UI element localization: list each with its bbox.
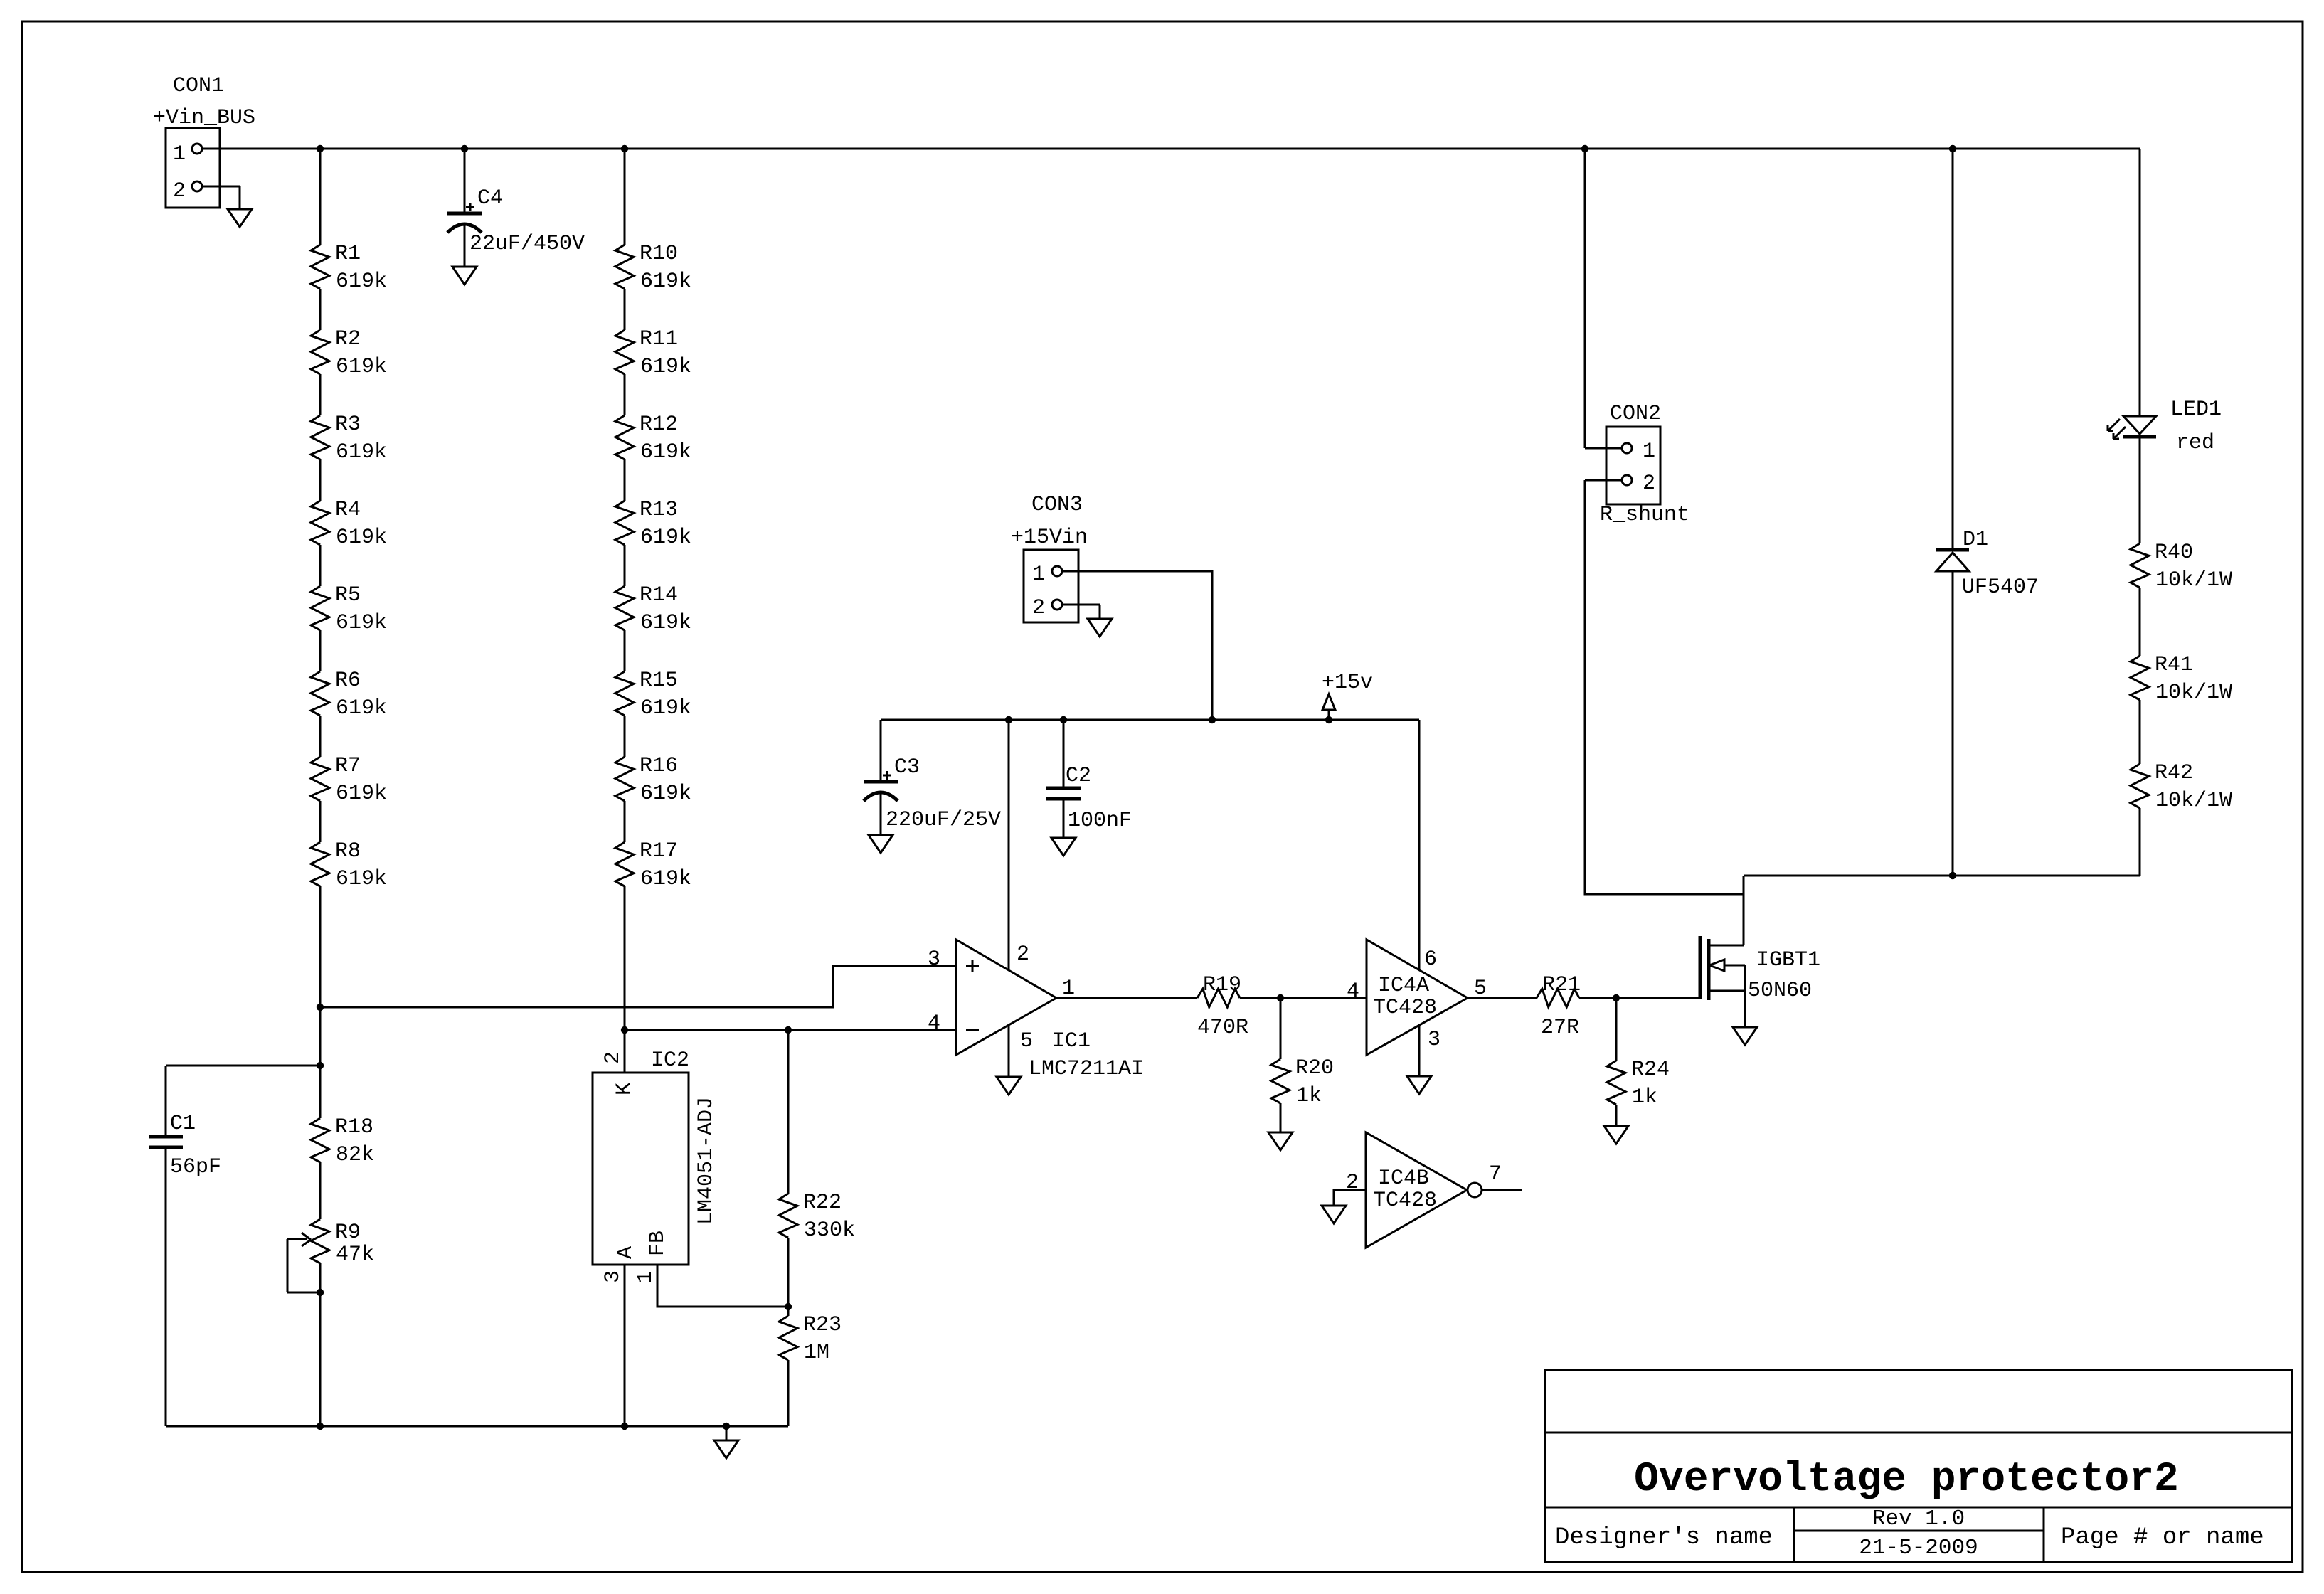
- svg-text:R7: R7: [335, 754, 361, 778]
- ground (R24): [1604, 1126, 1628, 1144]
- svg-text:IC1: IC1: [1052, 1029, 1091, 1053]
- svg-text:R15: R15: [640, 669, 678, 693]
- svg-text:2: 2: [1017, 942, 1029, 967]
- ground (bottom bus): [714, 1426, 738, 1458]
- resistor R5: [311, 545, 387, 635]
- wire CON2 pin2 down: [1585, 480, 1744, 894]
- svg-text:R19: R19: [1203, 973, 1241, 997]
- junction bus/R10: [621, 145, 628, 152]
- junction rail/CON3: [1209, 716, 1216, 723]
- resistor R20: [1271, 998, 1334, 1132]
- svg-text:2: 2: [173, 179, 186, 203]
- svg-text:R_shunt: R_shunt: [1600, 503, 1689, 527]
- resistor R11: [615, 289, 691, 379]
- svg-text:R4: R4: [335, 498, 361, 522]
- junction R19/R20: [1277, 994, 1284, 1001]
- capacitor C3: [864, 720, 1001, 835]
- wire +15v rail: [881, 719, 1419, 721]
- resistor R13: [615, 459, 691, 550]
- svg-text:21-5-2009: 21-5-2009: [1859, 1536, 1978, 1561]
- svg-text:4: 4: [1347, 979, 1359, 1004]
- junction C1/chain: [317, 1062, 324, 1069]
- svg-text:27R: 27R: [1541, 1016, 1579, 1040]
- resistor R15: [615, 630, 691, 721]
- CON2 pin 1: [1622, 443, 1632, 453]
- svg-text:619k: 619k: [336, 270, 387, 294]
- svg-text:R11: R11: [640, 327, 678, 351]
- ground (IC4A pin3): [1407, 1076, 1431, 1094]
- svg-text:330k: 330k: [804, 1218, 855, 1243]
- svg-text:619k: 619k: [640, 611, 691, 635]
- svg-text:619k: 619k: [640, 355, 691, 379]
- ground (C2): [1051, 838, 1076, 856]
- svg-text:D1: D1: [1963, 528, 1988, 552]
- svg-text:R8: R8: [335, 839, 361, 864]
- connector CON3: [1011, 493, 1100, 622]
- svg-text:UF5407: UF5407: [1962, 575, 2039, 600]
- svg-text:CON3: CON3: [1031, 493, 1083, 517]
- wire R8 to node A: [319, 886, 322, 1007]
- wire IC1 pin5: [1008, 1024, 1010, 1077]
- svg-text:R6: R6: [335, 669, 361, 693]
- junction R22 top: [785, 1026, 792, 1034]
- resistor R22: [779, 1030, 855, 1307]
- junction K node: [621, 1026, 628, 1034]
- shunt regulator IC2: [593, 1048, 718, 1265]
- svg-text:3: 3: [1428, 1028, 1440, 1052]
- wire IC1 pin2 to +15v rail: [1008, 720, 1010, 969]
- svg-text:FB: FB: [646, 1231, 670, 1256]
- ground (IGBT source): [1733, 1027, 1757, 1045]
- resistor R12: [615, 374, 691, 464]
- capacitor C2: [1046, 720, 1132, 838]
- junction node A: [317, 1004, 324, 1011]
- driver IC4B: [1366, 1132, 1522, 1248]
- svg-text:470R: 470R: [1197, 1016, 1248, 1040]
- svg-text:6: 6: [1424, 947, 1437, 972]
- resistor R6: [311, 630, 387, 721]
- resistor R1: [311, 149, 387, 294]
- potentiometer R9: [287, 1162, 374, 1426]
- supply +15v: [1322, 671, 1373, 720]
- junction bus/D1: [1949, 145, 1956, 152]
- svg-text:5: 5: [1020, 1029, 1033, 1053]
- svg-text:C2: C2: [1066, 764, 1091, 788]
- CON2 pin 2: [1622, 475, 1632, 485]
- junction FB/R22/R23: [785, 1303, 792, 1310]
- CON1 pin 2: [192, 181, 202, 191]
- svg-text:R41: R41: [2155, 653, 2193, 677]
- svg-text:TC428: TC428: [1373, 1189, 1437, 1213]
- resistor R14: [615, 545, 691, 635]
- wire IC1 out to R19: [1056, 997, 1197, 999]
- svg-text:4: 4: [928, 1011, 940, 1036]
- resistor R8: [311, 801, 387, 891]
- svg-text:R3: R3: [335, 413, 361, 437]
- resistor R17: [615, 801, 691, 891]
- svg-text:R17: R17: [640, 839, 678, 864]
- svg-text:K: K: [612, 1083, 637, 1095]
- svg-text:2: 2: [1346, 1171, 1359, 1195]
- title block: [1545, 1370, 2292, 1562]
- svg-text:R5: R5: [335, 583, 361, 607]
- connector CON1: [153, 74, 255, 208]
- svg-text:LED1: LED1: [2170, 398, 2222, 422]
- junction R9 wiper: [317, 1289, 324, 1296]
- svg-text:619k: 619k: [336, 440, 387, 464]
- junction rail/+15v: [1325, 716, 1332, 723]
- svg-text:3: 3: [601, 1270, 625, 1283]
- resistor R21: [1537, 973, 1581, 1040]
- junction bus/R1: [317, 145, 324, 152]
- svg-text:619k: 619k: [336, 526, 387, 550]
- diode D1: [1936, 149, 2039, 876]
- svg-text:red: red: [2176, 431, 2214, 455]
- resistor R3: [311, 374, 387, 464]
- resistor R10: [615, 149, 691, 294]
- junction bus/CON2: [1581, 145, 1588, 152]
- resistor R40: [2131, 541, 2232, 656]
- svg-text:R24: R24: [1631, 1058, 1670, 1082]
- junction gndbus/chain: [317, 1423, 324, 1430]
- svg-text:R10: R10: [640, 242, 678, 266]
- wire R21 to IGBT gate: [1579, 997, 1700, 999]
- wire IC4A out to R21: [1468, 997, 1537, 999]
- svg-text:10k/1W: 10k/1W: [2155, 789, 2232, 813]
- svg-text:Designer's name: Designer's name: [1555, 1524, 1773, 1551]
- svg-text:82k: 82k: [336, 1143, 374, 1167]
- svg-text:50N60: 50N60: [1748, 979, 1812, 1003]
- svg-text:R20: R20: [1295, 1056, 1334, 1080]
- wire bus to CON2 pin1: [1584, 149, 1586, 448]
- svg-text:619k: 619k: [640, 270, 691, 294]
- CON1 pin 1: [192, 144, 202, 154]
- wire IC4B pin2: [1334, 1190, 1366, 1206]
- svg-text:3: 3: [928, 947, 940, 972]
- resistor R2: [311, 289, 387, 379]
- op-amp IC1: [956, 940, 1144, 1081]
- resistor R42: [2131, 761, 2232, 876]
- svg-text:619k: 619k: [640, 782, 691, 806]
- wire rail to IC4A pin6: [1418, 720, 1421, 969]
- ground (IC4B pin2): [1322, 1206, 1346, 1223]
- svg-text:1k: 1k: [1632, 1085, 1657, 1110]
- junction rail/C2: [1060, 716, 1067, 723]
- junction rail/IC1pin2: [1005, 716, 1012, 723]
- svg-text:Rev 1.0: Rev 1.0: [1872, 1507, 1965, 1531]
- resistor R16: [615, 716, 691, 806]
- svg-text:+15v: +15v: [1322, 671, 1373, 695]
- svg-text:1k: 1k: [1296, 1084, 1322, 1108]
- svg-text:R9: R9: [335, 1221, 361, 1245]
- CON3 pin 2: [1052, 600, 1062, 610]
- wire IC2 FB: [657, 1265, 788, 1307]
- svg-text:R1: R1: [335, 242, 361, 266]
- svg-text:R42: R42: [2155, 761, 2193, 785]
- resistor R4: [311, 459, 387, 550]
- capacitor C4: [447, 149, 585, 267]
- ground (CON3 pin 2): [1088, 605, 1112, 637]
- svg-text:619k: 619k: [336, 355, 387, 379]
- svg-text:10k/1W: 10k/1W: [2155, 568, 2232, 593]
- svg-text:619k: 619k: [336, 696, 387, 721]
- capacitor C1: [149, 1066, 320, 1426]
- svg-text:220uF/25V: 220uF/25V: [886, 808, 1001, 832]
- svg-text:C1: C1: [170, 1112, 196, 1136]
- svg-text:619k: 619k: [640, 440, 691, 464]
- svg-text:C3: C3: [894, 755, 920, 780]
- svg-text:C4: C4: [477, 186, 503, 211]
- svg-text:CON1: CON1: [173, 74, 224, 98]
- ground (R20): [1268, 1132, 1293, 1150]
- svg-text:R21: R21: [1542, 973, 1581, 997]
- svg-text:R18: R18: [335, 1115, 373, 1139]
- transistor IGBT1: [1700, 936, 1820, 1027]
- svg-text:+15Vin: +15Vin: [1011, 526, 1088, 550]
- CON3 pin 1: [1052, 566, 1062, 576]
- driver IC4A: [1367, 940, 1468, 1055]
- connector CON2: [1585, 402, 1689, 527]
- svg-text:IC4B: IC4B: [1378, 1167, 1429, 1191]
- wire IGBT drain: [1743, 876, 1745, 945]
- svg-text:R16: R16: [640, 754, 678, 778]
- ground (C3): [869, 835, 893, 853]
- svg-text:619k: 619k: [640, 526, 691, 550]
- svg-text:A: A: [614, 1246, 638, 1259]
- wire shunt node: [1744, 875, 2140, 877]
- resistor R7: [311, 716, 387, 806]
- wire R17 to IC2 K: [624, 886, 626, 1073]
- svg-text:2: 2: [601, 1051, 625, 1064]
- wire bottom ground bus: [166, 1425, 788, 1428]
- svg-text:R12: R12: [640, 413, 678, 437]
- resistor R19: [1197, 973, 1248, 1040]
- svg-text:2: 2: [1032, 596, 1045, 620]
- svg-text:56pF: 56pF: [170, 1155, 221, 1179]
- svg-text:619k: 619k: [640, 867, 691, 891]
- svg-text:R13: R13: [640, 498, 678, 522]
- wire IC2 K to IC1 pin4: [625, 1029, 956, 1031]
- svg-text:+Vin_BUS: +Vin_BUS: [153, 106, 255, 130]
- svg-text:R23: R23: [803, 1313, 842, 1337]
- wire R19 to IC4A pin4: [1240, 997, 1367, 999]
- svg-text:Page # or name: Page # or name: [2061, 1524, 2264, 1551]
- wire node A to IC1 pin3: [320, 966, 956, 1007]
- junction shunt/D1: [1949, 872, 1956, 879]
- svg-text:100nF: 100nF: [1068, 809, 1132, 833]
- svg-text:LMC7211AI: LMC7211AI: [1029, 1057, 1144, 1081]
- svg-text:1: 1: [634, 1271, 658, 1284]
- svg-text:1M: 1M: [804, 1341, 829, 1365]
- svg-text:619k: 619k: [336, 782, 387, 806]
- svg-text:IGBT1: IGBT1: [1756, 948, 1820, 972]
- junction R21/R24: [1613, 994, 1620, 1001]
- svg-text:1: 1: [1643, 440, 1655, 464]
- svg-text:619k: 619k: [336, 611, 387, 635]
- resistor R18: [311, 1007, 374, 1167]
- svg-text:R14: R14: [640, 583, 678, 607]
- svg-text:619k: 619k: [336, 867, 387, 891]
- svg-text:R22: R22: [803, 1191, 842, 1215]
- junction bus/C4: [461, 145, 468, 152]
- svg-text:22uF/450V: 22uF/450V: [469, 232, 585, 256]
- svg-text:2: 2: [1643, 472, 1655, 496]
- svg-text:7: 7: [1489, 1162, 1502, 1186]
- ground (IC1 pin5): [997, 1077, 1021, 1095]
- svg-text:IC2: IC2: [651, 1048, 689, 1073]
- svg-text:CON2: CON2: [1610, 402, 1661, 426]
- resistor R41: [2131, 653, 2232, 764]
- svg-text:619k: 619k: [640, 696, 691, 721]
- svg-text:Overvoltage protector2: Overvoltage protector2: [1634, 1457, 2179, 1503]
- resistor R24: [1607, 998, 1670, 1126]
- wire IC2 A to ground bus: [624, 1265, 626, 1426]
- svg-text:TC428: TC428: [1373, 996, 1437, 1020]
- svg-text:IC4A: IC4A: [1378, 974, 1429, 998]
- wire IC4A pin3: [1418, 1025, 1421, 1076]
- ground (CON1 pin 2): [228, 186, 252, 227]
- LED LED1: [2108, 149, 2222, 543]
- svg-text:1: 1: [173, 142, 186, 166]
- ground (C4): [452, 267, 477, 285]
- svg-text:LM4051-ADJ: LM4051-ADJ: [694, 1097, 718, 1225]
- junction gndbus/IC2A: [621, 1423, 628, 1430]
- wire CON3 pin1 to rail: [1062, 571, 1212, 720]
- svg-text:R2: R2: [335, 327, 361, 351]
- resistor R23: [779, 1307, 842, 1426]
- svg-text:47k: 47k: [336, 1243, 374, 1267]
- svg-text:1: 1: [1032, 563, 1045, 587]
- svg-text:10k/1W: 10k/1W: [2155, 681, 2232, 705]
- svg-text:R40: R40: [2155, 541, 2193, 565]
- wire +Vin_BUS bus: [202, 148, 2140, 150]
- junction gndbus/gnd: [723, 1423, 730, 1430]
